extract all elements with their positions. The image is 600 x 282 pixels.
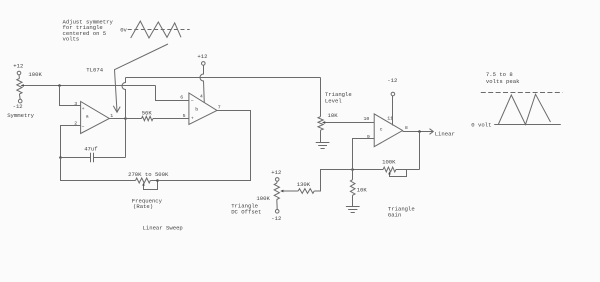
wire node up to U1c pin9 [353, 139, 375, 170]
ground under R3 [316, 143, 330, 149]
annotation arrow [113, 44, 168, 112]
waveform triangle wave right [498, 94, 550, 124]
wire symmetry wiper to node [26, 85, 156, 87]
svg-text:6: 6 [180, 94, 183, 100]
waveform triangle wave left [131, 21, 181, 38]
wire node up with hop over symmetry wire [122, 78, 126, 119]
wire R4 left to node [353, 169, 384, 171]
svg-text:c: c [380, 128, 383, 133]
svg-text:-12: -12 [13, 103, 23, 110]
svg-text:Level: Level [325, 98, 342, 105]
resistor R6 130K [282, 181, 315, 193]
svg-text:-12: -12 [271, 215, 281, 222]
svg-text:+12: +12 [271, 169, 281, 176]
junction dot gain node [351, 168, 354, 171]
label Triangle Gain [388, 205, 415, 218]
svg-text:130K: 130K [297, 181, 311, 188]
svg-text:10K: 10K [357, 187, 368, 194]
svg-text:270K to 500K: 270K to 500K [128, 171, 169, 178]
svg-text:volts peak: volts peak [486, 78, 520, 85]
svg-text:10: 10 [364, 116, 370, 122]
potentiometer R3 Triangle Level 10K [318, 91, 352, 143]
supply +12 to U1b pin4 [197, 53, 207, 103]
svg-text:3: 3 [74, 101, 77, 107]
junction dot R2 right [156, 179, 159, 182]
waveform centerline dashed [128, 29, 190, 31]
svg-text:a: a [86, 115, 89, 120]
op-amp U1b [180, 93, 221, 125]
wire cap node down to R2 [61, 158, 136, 181]
svg-text:7.5 to 8: 7.5 to 8 [486, 71, 513, 78]
wire output down to feedback rail [419, 132, 421, 170]
wire node to pin6 of U1b [156, 86, 189, 101]
capacitor C1 47uf [61, 146, 126, 163]
svg-text:volts: volts [63, 36, 80, 43]
wire gain node to 130K [314, 170, 352, 192]
ground under R5 [346, 207, 360, 213]
svg-text:−: − [191, 100, 194, 105]
junction dot U1a output [124, 117, 127, 120]
svg-text:0 volt: 0 volt [471, 121, 491, 128]
wire pin2 down to cap node [61, 126, 81, 158]
svg-text:100K: 100K [382, 159, 396, 166]
svg-text:-12: -12 [387, 77, 397, 84]
resistor R5 10K [350, 170, 367, 207]
junction dot [58, 84, 61, 87]
wire U1c output [403, 131, 433, 133]
svg-text:(Rate): (Rate) [133, 203, 153, 210]
output arrow Linear [430, 129, 455, 138]
svg-text:DC Offset: DC Offset [231, 208, 261, 215]
supply -12 to U1c pin11 [387, 77, 397, 126]
potentiometer R4 100K Triangle Gain feedback [382, 159, 406, 177]
waveform dashed peak line right [481, 92, 563, 94]
svg-text:4: 4 [200, 93, 203, 99]
svg-text:+: + [191, 116, 194, 121]
svg-text:+: + [82, 107, 85, 112]
wire node to pin3 of U1a [60, 86, 81, 106]
potentiometer R2 270K to 500K [128, 171, 169, 210]
svg-text:10K: 10K [328, 112, 339, 119]
svg-text:+12: +12 [197, 53, 207, 60]
svg-text:5: 5 [183, 113, 186, 119]
svg-text:100K: 100K [28, 71, 42, 78]
wire top rail down to R3 [320, 78, 322, 117]
junction dot output [418, 130, 421, 133]
wire U1a output to node [109, 118, 125, 120]
potentiometer R7 Triangle DC Offset 100K [231, 169, 283, 222]
svg-text:100K: 100K [256, 195, 270, 202]
svg-text:0v: 0v [120, 27, 127, 34]
resistor 56K [126, 110, 189, 121]
svg-text:TL074: TL074 [86, 66, 103, 73]
potentiometer R1 Symmetry 100K [7, 63, 42, 119]
svg-text:Symmetry: Symmetry [7, 112, 34, 119]
wire top rail [126, 77, 321, 79]
wire cap to U1a output node [125, 119, 127, 158]
svg-text:8: 8 [405, 125, 408, 131]
svg-text:b: b [195, 106, 198, 112]
svg-text:Linear Sweep: Linear Sweep [143, 224, 183, 231]
svg-text:9: 9 [367, 134, 370, 140]
label 7.5 to 8 volts peak [486, 71, 520, 85]
note: adjust symmetry annotation [63, 19, 114, 43]
svg-text:+12: +12 [13, 63, 23, 70]
svg-text:47uf: 47uf [84, 146, 97, 153]
svg-text:−: − [82, 125, 85, 130]
junction dot cap node [59, 156, 62, 159]
waveform baseline right [494, 124, 561, 126]
wire R3 wiper to U1c pin10 [328, 122, 375, 124]
svg-text:56K: 56K [142, 110, 153, 117]
op-amp U1a [74, 101, 113, 133]
svg-text:7: 7 [218, 104, 221, 110]
svg-text:Linear: Linear [435, 130, 455, 137]
op-amp U1c [364, 114, 408, 147]
wire feedback rail right segment [396, 169, 420, 171]
wire R2 to U1b output [158, 111, 251, 181]
svg-text:Gain: Gain [388, 211, 401, 218]
